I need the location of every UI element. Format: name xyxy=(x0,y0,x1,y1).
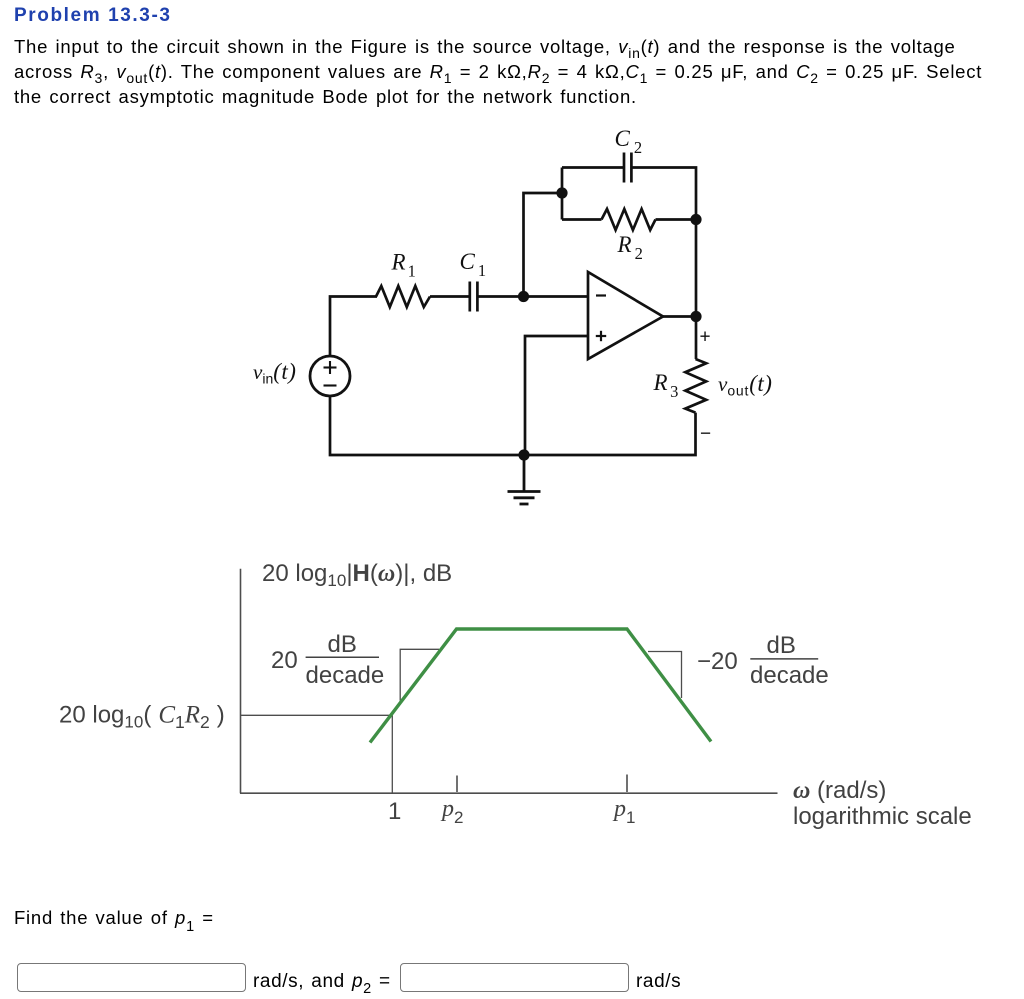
wire to R2 xyxy=(562,218,602,221)
svg-text:vout(t): vout(t) xyxy=(718,371,772,399)
svg-text:ω (rad/s): ω (rad/s) xyxy=(793,777,886,804)
wire non-inverting input down to ground rail xyxy=(525,336,588,455)
resistor R1 xyxy=(376,286,430,307)
node A junction dot xyxy=(518,291,529,302)
title xyxy=(14,5,172,27)
tick p1 xyxy=(626,775,628,793)
right slope indicator xyxy=(648,652,682,699)
input box p1 xyxy=(17,963,246,992)
op-amp plus pin mark xyxy=(596,331,606,341)
svg-text:decade: decade xyxy=(750,662,829,689)
ground node junction dot xyxy=(518,449,529,460)
input box p2 xyxy=(400,963,629,992)
svg-text:dB: dB xyxy=(767,632,796,659)
problem statement xyxy=(14,34,1024,110)
node B junction dot xyxy=(690,214,701,225)
op-amp U1 xyxy=(588,272,663,359)
svg-text:20 log10(C1R2): 20 log10(C1R2) xyxy=(59,702,225,733)
wire feedback node down to R2 branch xyxy=(561,193,564,220)
svg-text:p2: p2 xyxy=(440,796,463,827)
svg-text:20: 20 xyxy=(271,647,298,674)
output node junction dot xyxy=(690,311,701,322)
wire C1 to node A xyxy=(477,295,523,298)
svg-text:C1: C1 xyxy=(460,249,487,280)
answer row xyxy=(0,960,1024,962)
source plus mark xyxy=(324,361,337,374)
svg-text:dB: dB xyxy=(328,631,357,658)
svg-text:C2: C2 xyxy=(615,126,643,157)
capacitor C1 xyxy=(470,282,478,312)
voltage source vin xyxy=(310,356,350,396)
left fraction bar xyxy=(306,656,379,658)
wire feedback node up to C2 branch xyxy=(561,168,564,194)
wire output node down to R3 xyxy=(695,317,698,360)
bode magnitude trace xyxy=(370,629,711,743)
svg-text:+: + xyxy=(700,327,711,348)
source minus mark xyxy=(324,384,337,386)
left slope indicator xyxy=(400,649,439,700)
svg-text:R1: R1 xyxy=(391,249,416,280)
capacitor C2 xyxy=(624,153,631,183)
svg-text:20 log10|H(ω)|, dB: 20 log10|H(ω)|, dB xyxy=(262,560,452,590)
op-amp minus pin mark xyxy=(596,294,606,296)
wire op-amp output xyxy=(663,315,696,318)
ground xyxy=(508,455,541,504)
wire C2 left xyxy=(562,166,624,169)
svg-text:−20: −20 xyxy=(697,648,738,675)
wire R2 to node B xyxy=(656,218,697,221)
x axis xyxy=(240,792,778,794)
svg-text:R3: R3 xyxy=(653,370,679,401)
svg-text:−: − xyxy=(700,424,711,445)
bode plot svg xyxy=(0,540,1024,870)
svg-text:vin(t): vin(t) xyxy=(253,359,296,387)
tick p2 xyxy=(456,776,458,793)
wire R1 to C1 xyxy=(430,295,470,298)
wire node B down to output node xyxy=(695,220,698,317)
wire node A up to feedback node xyxy=(524,193,563,297)
svg-text:p1: p1 xyxy=(612,796,635,827)
wire vin top to R1 xyxy=(330,297,377,357)
svg-text:logarithmic scale: logarithmic scale xyxy=(793,803,972,830)
svg-text:1: 1 xyxy=(388,798,401,825)
vertical line at omega=1 xyxy=(391,715,393,793)
resistor R2 xyxy=(602,209,656,230)
resistor R3 xyxy=(685,359,706,413)
bottom rail to source xyxy=(330,396,524,455)
svg-text:R2: R2 xyxy=(617,232,643,263)
circuit schematic svg xyxy=(0,0,1024,530)
feedback node junction dot xyxy=(556,187,567,198)
find the value prompt xyxy=(14,907,214,929)
y axis xyxy=(240,569,242,794)
svg-text:decade: decade xyxy=(306,662,385,689)
low frequency level line xyxy=(241,714,392,716)
wire C2 right and down xyxy=(631,168,696,220)
right fraction bar xyxy=(750,658,818,660)
wire node A to op-amp inverting input xyxy=(524,295,589,298)
wire R3 to bottom rail xyxy=(524,413,696,455)
